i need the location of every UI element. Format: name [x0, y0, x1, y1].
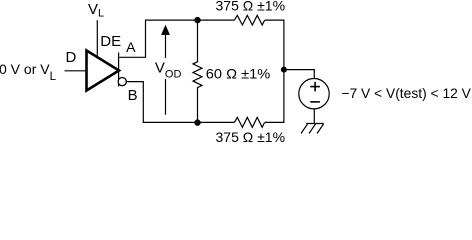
- resistor R3 375 ohm bottom: [234, 117, 264, 127]
- wire bottom rail right: [265, 70, 284, 123]
- source V1: [299, 79, 329, 109]
- wire A output to top rail: [119, 20, 234, 57]
- wire to source V1: [284, 70, 314, 79]
- wire top rail right: [265, 20, 284, 70]
- svg-text:375 Ω ±1%: 375 Ω ±1%: [216, 0, 286, 13]
- svg-text:A: A: [126, 39, 136, 55]
- label VOD: [153, 58, 182, 80]
- svg-text:B: B: [128, 87, 138, 104]
- junction top rail: [194, 17, 200, 23]
- svg-text:D: D: [66, 49, 77, 66]
- svg-text:−7 V < V(test) < 12 V: −7 V < V(test) < 12 V: [341, 85, 471, 101]
- wire VL to DE pin: [96, 20, 98, 57]
- ground: [301, 124, 324, 134]
- wire B output to bottom rail: [126, 82, 234, 123]
- wire source to ground: [313, 109, 315, 124]
- wire D input: [65, 70, 88, 72]
- svg-text:375 Ω ±1%: 375 Ω ±1%: [216, 129, 286, 144]
- resistor R1 375 ohm top: [234, 15, 264, 25]
- driver U1: [87, 51, 120, 91]
- resistor R2 60 ohm: [193, 20, 202, 122]
- arrow VOD: [161, 25, 170, 115]
- junction bottom rail: [194, 119, 200, 125]
- pin stub A and B: [118, 53, 120, 87]
- svg-text:60 Ω ±1%: 60 Ω ±1%: [206, 66, 270, 82]
- svg-text:0 V or VL: 0 V or VL: [0, 61, 57, 83]
- bubble on B output: [118, 78, 126, 86]
- svg-text:DE: DE: [100, 33, 121, 50]
- junction right rail: [281, 67, 287, 73]
- svg-text:VL: VL: [88, 1, 104, 20]
